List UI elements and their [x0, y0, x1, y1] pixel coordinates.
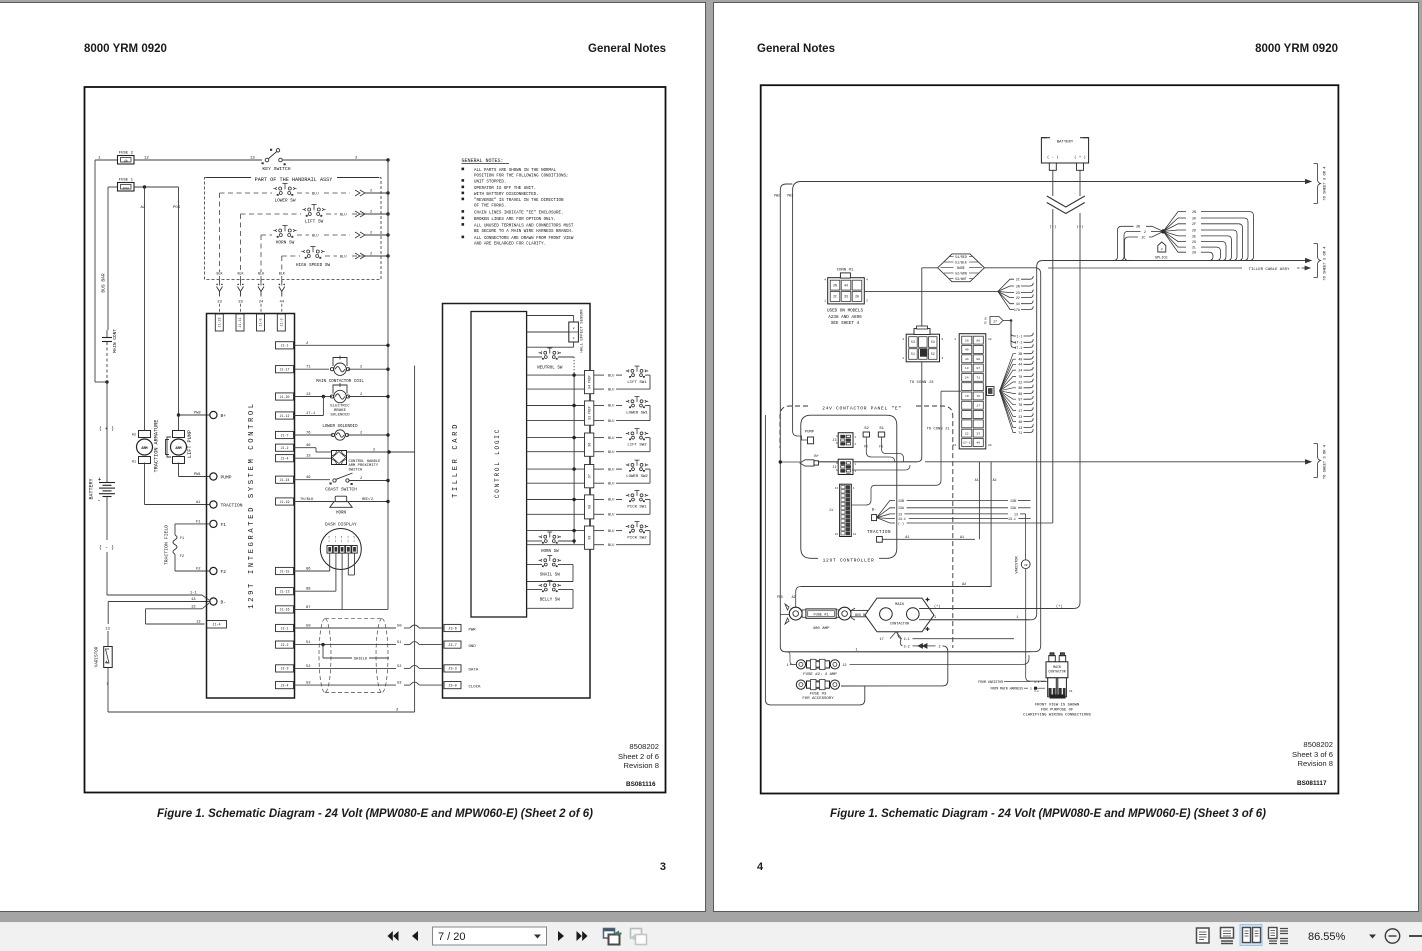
two page layout icon (selected)	[1240, 925, 1262, 946]
svg-text:400 AMP: 400 AMP	[813, 627, 830, 631]
svg-text:71: 71	[976, 375, 980, 379]
wires control logic to S7	[527, 468, 585, 470]
svg-text:13: 13	[191, 605, 196, 609]
wire A2 row	[801, 586, 991, 588]
svg-text:MAIN: MAIN	[895, 603, 904, 607]
switch LOWER SW1	[594, 405, 604, 407]
svg-text:LOWER SW: LOWER SW	[274, 199, 295, 204]
svg-text:129T CONTROLLER: 129T CONTROLLER	[823, 557, 875, 563]
svg-text:13: 13	[898, 512, 902, 516]
svg-text:2B: 2B	[1136, 225, 1140, 229]
svg-text:A1: A1	[975, 478, 979, 482]
svg-text:70: 70	[1018, 375, 1022, 379]
splice node	[1161, 229, 1165, 233]
svg-text:53: 53	[397, 682, 402, 686]
left battery feed wire	[94, 160, 96, 382]
svg-text:B+: B+	[814, 455, 819, 459]
switch LIFT SW1	[594, 374, 604, 376]
svg-text:BATTERY: BATTERY	[1057, 140, 1074, 144]
main contactor K2	[865, 598, 934, 632]
svg-text:J1-2: J1-2	[281, 446, 289, 450]
wire 1 drop to fuse2	[788, 652, 794, 665]
tag 17 to B+	[990, 317, 1003, 325]
svg-text:S8: S8	[587, 505, 591, 509]
svg-text:2H: 2H	[1192, 251, 1196, 255]
svg-text:NEUTROL SW: NEUTROL SW	[537, 366, 563, 370]
svg-text:4: 4	[836, 435, 838, 438]
svg-text:B-: B-	[872, 509, 877, 513]
bottom bus wire 2	[108, 711, 415, 713]
svg-text:2G: 2G	[1192, 240, 1196, 244]
wire PW2 vertical	[779, 190, 781, 462]
svg-text:TO CONN J1: TO CONN J1	[927, 428, 951, 432]
svg-text:J3-0: J3-0	[448, 684, 457, 688]
battery BT1 (-) label	[106, 497, 108, 541]
right page (sheet 3)	[713, 2, 1419, 912]
svg-text:20: 20	[965, 338, 969, 342]
next page button	[558, 931, 564, 941]
svg-text:CONN #1: CONN #1	[837, 269, 854, 273]
svg-text:PUMP: PUMP	[805, 431, 815, 435]
right page revision block	[1183, 740, 1333, 769]
svg-text:17: 17	[880, 638, 884, 642]
svg-text:GENERAL NOTES:: GENERAL NOTES:	[462, 158, 504, 164]
svg-text:GND: GND	[469, 645, 477, 649]
horn switch (tiller)	[539, 532, 561, 544]
svg-text:POSITION FOR THE FOLLOWING CON: POSITION FOR THE FOLLOWING CONDITIONS;	[474, 175, 568, 179]
connector to conn J3	[906, 334, 939, 362]
general notes bullet list	[462, 168, 465, 171]
svg-text:TRACTION FIELD: TRACTION FIELD	[164, 525, 170, 565]
wire 50 row	[318, 627, 396, 629]
svg-text:PICK SW1: PICK SW1	[627, 505, 647, 509]
svg-text:88: 88	[306, 588, 311, 592]
svg-text:BLU: BLU	[340, 256, 346, 260]
svg-text:BROKEN LINES ARE FOR OPTION ON: BROKEN LINES ARE FOR OPTION ONLY.	[474, 218, 556, 222]
svg-text:2E: 2E	[1192, 234, 1196, 238]
svg-text:88: 88	[1018, 392, 1022, 396]
svg-text:2F: 2F	[1192, 222, 1196, 226]
svg-text:LIFT SW2: LIFT SW2	[627, 443, 647, 447]
battery BT1 (sheet 3)	[1041, 138, 1088, 163]
svg-text:129T INTEGRATED SYSTEM CONTROL: 129T INTEGRATED SYSTEM CONTROL	[248, 401, 256, 608]
svg-text:S7: S7	[587, 474, 591, 478]
connector J2-4 and wire 53	[276, 682, 294, 689]
main contactor front view	[1049, 656, 1056, 662]
svg-text:( + ): ( + )	[1074, 155, 1086, 160]
connector J1-13 and wire 88	[276, 588, 294, 595]
svg-text:2: 2	[855, 443, 857, 446]
svg-text:76: 76	[1018, 403, 1022, 407]
wire A2 vertical	[144, 187, 146, 430]
svg-text:13: 13	[1014, 512, 1018, 516]
wire splice branch 2F	[1163, 224, 1186, 232]
switch lower SW (handrail)	[273, 184, 296, 196]
wire snail switch loop	[527, 564, 542, 566]
svg-text:2: 2	[370, 253, 372, 257]
svg-text:FUSE #1: FUSE #1	[813, 613, 828, 617]
wire to sheet bottom arrow	[922, 461, 1310, 463]
svg-text:88: 88	[976, 357, 980, 361]
svg-text:1-1: 1-1	[190, 592, 198, 596]
svg-text:FUSE #2: 4 AMP: FUSE #2: 4 AMP	[803, 673, 837, 677]
bus bar	[851, 610, 873, 616]
svg-text:TILLER CARD: TILLER CARD	[452, 422, 460, 498]
svg-text:CONTROL LOGIC: CONTROL LOGIC	[494, 428, 501, 498]
svg-text:13B: 13B	[1010, 499, 1016, 503]
svg-text:BLU: BLU	[608, 544, 614, 548]
svg-text:CLOCK: CLOCK	[469, 685, 482, 689]
svg-text:2-1: 2-1	[904, 638, 910, 642]
belly switch	[539, 581, 561, 593]
tiller cable assy bus	[1037, 261, 1043, 267]
svg-text:52/GRN: 52/GRN	[955, 271, 967, 275]
wire contactor (+) to battery positive	[919, 608, 1074, 610]
connector J3-3 DATA	[444, 665, 461, 672]
svg-text:7H/BLK: 7H/BLK	[300, 497, 314, 502]
wire splice branch 2E	[1163, 231, 1186, 236]
left schematic frame	[85, 87, 666, 793]
svg-text:HORN SW: HORN SW	[541, 550, 559, 554]
wire 13-1 from B- stud	[877, 518, 895, 519]
svg-text:B+: B+	[221, 413, 227, 419]
svg-text:DASH DISPLAY: DASH DISPLAY	[325, 522, 357, 527]
wire 2N from CONN#1 fan	[998, 286, 1014, 291]
svg-text:TRACTION: TRACTION	[867, 531, 891, 535]
svg-text:HALL EFFECT SENSOR: HALL EFFECT SENSOR	[581, 309, 585, 353]
svg-text:(-): (-)	[898, 521, 904, 525]
neutral switch	[539, 348, 561, 360]
svg-text:2N: 2N	[1016, 284, 1020, 288]
cable id hexagon	[938, 254, 985, 282]
svg-text:BUS BAR: BUS BAR	[101, 273, 107, 293]
svg-text:400A: 400A	[123, 187, 130, 190]
svg-text:HIGH SPEED SW: HIGH SPEED SW	[296, 263, 331, 268]
svg-text:13: 13	[105, 628, 110, 632]
svg-text:54/RED: 54/RED	[955, 255, 967, 259]
svg-text:PICK SW2: PICK SW2	[627, 536, 647, 540]
battery negative cable lower	[1052, 209, 1054, 523]
svg-text:24: 24	[988, 444, 992, 447]
svg-text:BRAKE: BRAKE	[334, 409, 347, 413]
wire 48 from harness connector fan	[1000, 391, 1016, 422]
svg-text:MAIN: MAIN	[1053, 665, 1061, 669]
svg-text:76: 76	[976, 394, 980, 398]
wire LIFT SW1 return	[594, 388, 604, 390]
svg-text:PW2: PW2	[194, 412, 202, 416]
svg-text:-: -	[98, 498, 101, 504]
wire bundle vertical A (tiller cable to contactor)	[919, 267, 1037, 620]
svg-text:53: 53	[911, 340, 915, 344]
connector J3-0 CLOCK	[444, 682, 461, 689]
node horn SW bus	[386, 233, 389, 236]
connector J1-5	[257, 314, 265, 331]
wire 71 from harness connector fan	[1000, 391, 1016, 433]
svg-text:17-1: 17-1	[1014, 341, 1022, 345]
svg-text:BLU: BLU	[608, 388, 614, 392]
wire varistor bottom to contactor	[1025, 569, 1027, 677]
left page (sheet 2)	[0, 2, 706, 912]
wire 44 from CONN#1 fan	[998, 291, 1014, 303]
svg-text:3: 3	[866, 300, 868, 303]
wire accessory harness loop	[764, 415, 766, 700]
battery positive cable	[1079, 170, 1081, 196]
svg-text:87: 87	[1018, 398, 1022, 402]
sensor box S8	[585, 495, 594, 519]
connector J1-7 and wire 76	[276, 431, 294, 438]
node lower SW bus	[386, 191, 389, 194]
svg-text:J2-1: J2-1	[281, 626, 289, 630]
node shield tap	[321, 643, 324, 646]
svg-text:+: +	[98, 477, 101, 483]
connector J3-7 GND	[444, 641, 461, 648]
svg-text:(+): (+)	[1076, 225, 1083, 230]
svg-text:J1-19: J1-19	[280, 500, 290, 504]
svg-text:2C: 2C	[1016, 278, 1020, 282]
battery BT1	[106, 382, 108, 482]
zoom out button	[1385, 929, 1399, 943]
svg-text:USED ON MODELS: USED ON MODELS	[827, 309, 864, 314]
wire 17 from harness connector fan	[1000, 391, 1016, 411]
svg-text:J3-7: J3-7	[448, 644, 457, 648]
svg-text:F2: F2	[196, 568, 201, 572]
svg-text:53: 53	[306, 682, 311, 686]
hall effect sensor B1	[569, 322, 579, 342]
wire 2-1 below contactor	[898, 632, 902, 639]
svg-text:J1-4: J1-4	[212, 624, 220, 628]
svg-text:2: 2	[1161, 248, 1163, 251]
terminal B- on U1	[210, 598, 217, 605]
wire BLK drop at x281.8	[281, 256, 283, 272]
wire A2 vertical	[990, 462, 992, 587]
svg-text:2: 2	[370, 190, 372, 194]
wire coil K1 to bus	[348, 368, 388, 370]
svg-text:J3-3: J3-3	[448, 668, 457, 672]
svg-text:BLU: BLU	[340, 214, 346, 218]
dash display pin headers	[327, 546, 332, 554]
wire varistor top	[1025, 514, 1027, 560]
svg-text:13: 13	[965, 366, 969, 370]
wire M1 A1 to traction terminal	[144, 463, 146, 505]
svg-text:HORN SW: HORN SW	[276, 241, 295, 246]
svg-text:17: 17	[1018, 409, 1022, 413]
svg-text:S6: S6	[587, 443, 591, 447]
svg-text:23: 23	[1016, 291, 1020, 295]
connector J1-1 and wire 2	[276, 342, 294, 349]
next view icon (disabled)	[631, 929, 642, 939]
connector J1-16 and wire 87	[276, 606, 294, 613]
wire 44 from harness connector fan	[1000, 364, 1016, 391]
switch horn SW (handrail)	[273, 226, 296, 238]
main harness connector J1 (sheet3)	[959, 334, 986, 449]
continuous scroll layout icon	[1221, 928, 1234, 939]
motor M2 lift pump	[173, 431, 185, 438]
svg-text:POS: POS	[173, 206, 181, 210]
svg-text:13: 13	[306, 455, 311, 459]
wire PW2 to B+	[780, 461, 800, 463]
svg-text:J1-15: J1-15	[353, 535, 356, 542]
connector J1-23	[215, 314, 223, 331]
sensor box S4	[585, 371, 594, 394]
wire horn to bus	[348, 501, 388, 503]
svg-text:A2: A2	[132, 434, 136, 438]
sensor box S3	[585, 401, 594, 425]
horn LS1	[335, 496, 347, 502]
svg-text:BLU: BLU	[608, 451, 614, 455]
svg-text:12: 12	[988, 338, 992, 341]
svg-text:CHAIN LINES INDICATE "EE" ENCL: CHAIN LINES INDICATE "EE" ENCLOSURE.	[474, 211, 563, 216]
svg-text:J1-15: J1-15	[280, 569, 290, 573]
svg-text:22: 22	[965, 431, 969, 435]
wire 87 from harness connector fan	[1000, 391, 1016, 399]
svg-text:2: 2	[360, 432, 362, 436]
svg-text:LOWER SW2: LOWER SW2	[626, 475, 648, 479]
wire splice branch 2N	[1163, 212, 1186, 232]
129T controller dashed enclosure	[801, 415, 897, 558]
svg-text:J1-12: J1-12	[280, 414, 290, 418]
switch lift SW (handrail)	[302, 205, 325, 217]
zoom dropdown caret	[1369, 935, 1376, 939]
connector J1-3	[277, 314, 285, 331]
svg-text:17-1: 17-1	[963, 441, 971, 445]
svg-text:( - ): ( - )	[1047, 155, 1059, 160]
wires control logic to S8	[527, 499, 585, 501]
wire lower SW row	[220, 192, 273, 194]
svg-text:54: 54	[931, 340, 935, 344]
crimp splice 33	[240, 280, 242, 286]
wire 86 from harness connector fan	[1000, 388, 1016, 391]
crimp splice 23	[219, 280, 221, 286]
svg-text:2C: 2C	[833, 295, 837, 299]
svg-text:TILLER CABLE ASSY: TILLER CABLE ASSY	[1249, 268, 1290, 272]
wire 22 from CONN#1 fan	[998, 291, 1014, 297]
svg-text:AND ARE ENLARGED FOR CLARITY.: AND ARE ENLARGED FOR CLARITY.	[474, 243, 546, 247]
toolbar background	[0, 922, 1422, 951]
svg-text:RED/2: RED/2	[362, 497, 373, 502]
node bus at S6	[572, 436, 575, 439]
wire J2 to conn J3 drop	[852, 465, 910, 470]
battery positive cable lower	[1079, 213, 1081, 602]
svg-text:46: 46	[306, 444, 311, 448]
terminal PUMP on U1	[210, 473, 217, 480]
wire junction to brake solenoid	[323, 396, 332, 398]
cable break chevrons	[1047, 196, 1085, 207]
svg-text:BLU: BLU	[608, 482, 614, 486]
svg-text:1-1: 1-1	[1016, 334, 1022, 338]
wire 13 from J1-4 to B-	[146, 608, 203, 610]
connector J2 (panel)	[838, 459, 853, 474]
control logic box	[471, 312, 527, 618]
svg-text:50: 50	[306, 625, 311, 629]
svg-text:FRONT VIEW IS SHOWN: FRONT VIEW IS SHOWN	[1035, 704, 1080, 708]
svg-text:51/BLK: 51/BLK	[955, 260, 967, 264]
svg-text:1: 1	[856, 648, 858, 652]
wire 23 from harness connector fan	[1000, 391, 1016, 417]
svg-text:86.55%: 86.55%	[1308, 931, 1346, 943]
wire A2 stub to fuse ring	[795, 603, 797, 608]
svg-text:J1-16: J1-16	[280, 608, 290, 612]
svg-text:51: 51	[397, 641, 402, 645]
svg-text:J1-13: J1-13	[334, 535, 337, 542]
svg-text:49: 49	[306, 476, 311, 480]
svg-text:SHIELD: SHIELD	[354, 658, 368, 662]
svg-text:1: 1	[573, 337, 575, 340]
svg-text:TO SHEET 3 OR 4: TO SHEET 3 OR 4	[1324, 444, 1328, 479]
svg-text:F2: F2	[221, 569, 227, 575]
wire 70 from harness connector fan	[1000, 376, 1016, 390]
svg-text:20: 20	[855, 295, 859, 299]
connector J2-3 and wire 52	[276, 665, 294, 672]
svg-text:S2: S2	[864, 427, 869, 431]
svg-text:2C: 2C	[1142, 235, 1146, 239]
svg-text:TO SHEET 3 OR 4: TO SHEET 3 OR 4	[1324, 246, 1328, 281]
svg-text:2N: 2N	[833, 283, 837, 287]
svg-text:( - ): ( - )	[99, 545, 114, 551]
svg-text:1: 1	[934, 616, 936, 620]
svg-text:SWITCH: SWITCH	[349, 469, 363, 473]
node lift SW bus	[386, 212, 389, 215]
svg-text:A1: A1	[196, 501, 201, 505]
wire proximity switch to bus 2	[347, 451, 415, 453]
svg-text:1: 1	[824, 300, 826, 303]
svg-text:ALL PARTS ARE SHOWN IN THE NOR: ALL PARTS ARE SHOWN IN THE NORMAL	[474, 169, 557, 173]
capacitor main contactor tips (MAIN CONT)	[106, 330, 108, 337]
svg-text:4: 4	[866, 279, 868, 282]
left page header	[84, 43, 167, 55]
svg-text:BLU: BLU	[312, 193, 318, 197]
svg-text:PUMP: PUMP	[221, 475, 232, 481]
wire horn switch	[527, 540, 542, 542]
wire PW feed to sheet arrow	[793, 182, 802, 191]
wire 13A from B- stud	[877, 508, 895, 518]
svg-text:J1-16: J1-16	[340, 535, 343, 542]
tiller card box A1	[443, 304, 591, 699]
svg-text:BE SECURE TO A MAIN WIRE HARNE: BE SECURE TO A MAIN WIRE HARNESS BRANCH.	[474, 230, 573, 234]
terminal F1 on U1	[210, 520, 217, 527]
svg-text:2B: 2B	[1018, 352, 1022, 356]
svg-text:PW1: PW1	[194, 473, 202, 477]
wires control logic to S6	[527, 437, 585, 439]
svg-text:2: 2	[360, 366, 362, 370]
svg-text:(-): (-)	[1049, 225, 1056, 230]
svg-text:B-: B-	[221, 600, 227, 606]
svg-text:13: 13	[835, 487, 839, 490]
svg-text:COAST SWITCH: COAST SWITCH	[325, 487, 357, 492]
svg-text:BLK: BLK	[279, 273, 286, 277]
single page layout icon	[1197, 928, 1210, 943]
svg-text:BLU: BLU	[608, 499, 614, 503]
wire POS tap to fuse1 ring	[780, 614, 789, 616]
svg-text:SOLENOID: SOLENOID	[330, 413, 350, 417]
wire conn J3 to B+ jumper	[921, 362, 923, 458]
wire 2 down to fuse3	[841, 646, 948, 686]
svg-text:44: 44	[844, 283, 848, 287]
terminal B+ on U1	[210, 411, 217, 418]
svg-text:71: 71	[1018, 431, 1022, 435]
terminal F2 on U1	[210, 567, 217, 574]
wire 52 row	[318, 667, 396, 669]
svg-text:(+): (+)	[1056, 604, 1062, 609]
right bus 1 vertical	[387, 160, 389, 609]
wire 13 from B- stud	[877, 514, 895, 518]
svg-text:FUSE 2: FUSE 2	[119, 152, 134, 156]
svg-text:J1-11: J1-11	[239, 317, 243, 327]
svg-text:VARISTOR: VARISTOR	[95, 646, 100, 667]
svg-text:48: 48	[1018, 420, 1022, 424]
node right bus top	[386, 158, 389, 161]
svg-text:11: 11	[1069, 690, 1073, 693]
svg-text:ELECTRIC: ELECTRIC	[330, 404, 350, 408]
